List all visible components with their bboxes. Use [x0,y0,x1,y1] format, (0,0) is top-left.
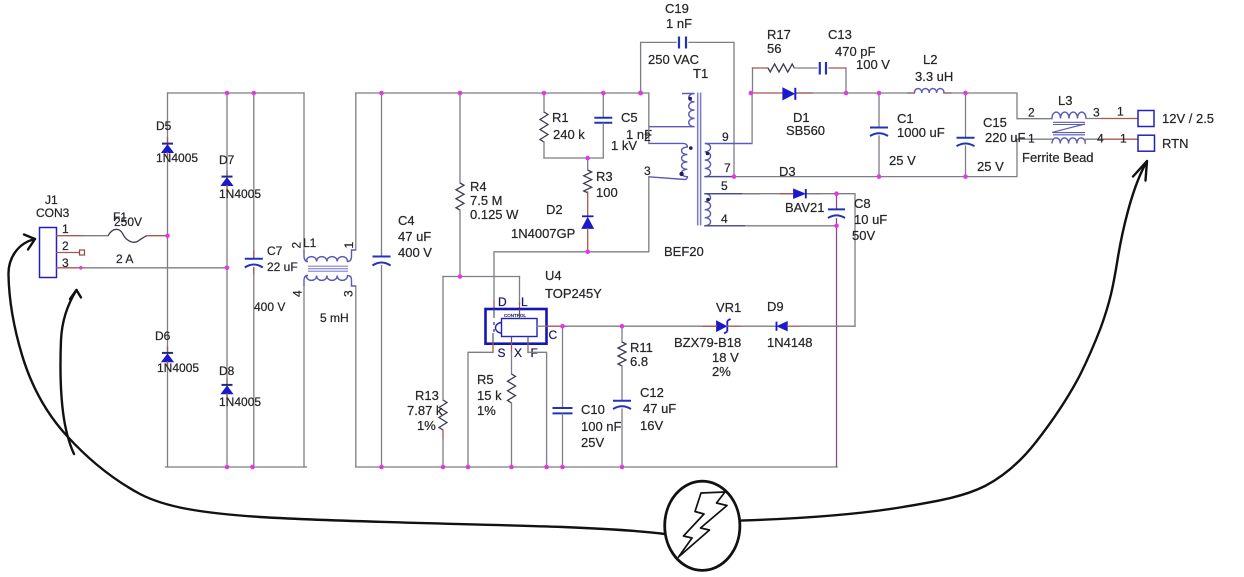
capacitor C15 220uF 25V [957,93,1026,177]
svg-text:BZX79-B18: BZX79-B18 [674,335,741,350]
svg-text:3.3 uH: 3.3 uH [915,69,953,84]
wire: secondary return rail pin 7 [705,139,1052,176]
svg-text:1N4005: 1N4005 [219,395,261,409]
svg-text:1 nF: 1 nF [666,16,692,31]
svg-text:2: 2 [644,130,651,144]
svg-text:250V: 250V [114,215,142,229]
svg-text:RTN: RTN [1162,136,1188,151]
svg-text:250 VAC: 250 VAC [648,52,699,67]
svg-text:CON3: CON3 [36,206,70,220]
hand-drawn arrow to input neutral wire [61,290,81,454]
svg-text:S: S [498,346,506,360]
inductor L1 common-mode choke 5mH [290,93,357,467]
diode D9 1N4148 [767,299,813,350]
svg-text:3: 3 [62,256,69,270]
resistor R17 56 [768,64,794,72]
svg-text:47 uF: 47 uF [398,229,431,244]
wire: bias winding pin 5 row [705,193,792,195]
svg-text:C13: C13 [828,27,852,42]
svg-text:D2: D2 [546,202,563,217]
svg-text:C19: C19 [665,1,689,16]
J1 pin 3 stub [57,256,81,270]
svg-text:5: 5 [721,179,728,193]
svg-text:7.5 M: 7.5 M [470,193,503,208]
svg-text:D7: D7 [219,153,235,167]
svg-text:1: 1 [1117,105,1124,119]
svg-text:VR1: VR1 [716,300,741,315]
svg-text:1000 uF: 1000 uF [897,125,945,140]
svg-text:1N4005: 1N4005 [156,151,198,165]
resistor R13 7.87k 1% [407,277,447,468]
svg-text:L: L [521,295,528,309]
capacitor C4 47uF 400V [373,93,433,467]
capacitor C5 1nF 1kV [594,93,652,158]
svg-text:Ferrite Bead: Ferrite Bead [1022,150,1094,165]
svg-text:7.87 k: 7.87 k [407,403,443,418]
connector J1 [40,228,57,278]
svg-text:R17: R17 [767,27,791,42]
J1 pin 2 stub with no-connect square [57,239,85,255]
wire: R1 C5 loop bottom [544,157,603,159]
svg-text:18 V: 18 V [712,350,739,365]
svg-text:C8: C8 [854,196,871,211]
svg-text:100: 100 [596,185,618,200]
svg-text:TOP245Y: TOP245Y [545,286,602,301]
T1 bias winding pins 5-4 [705,194,760,226]
wire: bridge left leg [167,93,169,467]
svg-text:56: 56 [767,41,781,56]
wire: bias winding pin 4 return [705,225,837,227]
capacitor C1 1000uF 25V [870,93,945,177]
hand-drawn curve from lightning to RTN arrow [740,161,1147,521]
T1 secondary winding pins 9-7 [705,144,752,177]
svg-text:D8: D8 [219,364,235,378]
svg-text:47 uF: 47 uF [643,401,676,416]
svg-text:C12: C12 [640,385,664,400]
svg-text:C4: C4 [398,213,415,228]
svg-text:BAV21: BAV21 [785,200,825,215]
svg-text:4: 4 [721,212,728,226]
resistor R3 100 [584,158,618,216]
svg-text:R3: R3 [596,169,613,184]
svg-text:1N4007GP: 1N4007GP [511,226,575,241]
svg-text:R1: R1 [552,110,569,125]
svg-text:7: 7 [724,161,731,175]
lightning bolt [679,492,728,557]
snubber branch R17 C13 [753,27,891,93]
capacitor C13 470pF 100V [819,62,821,75]
J1 pin 1 stub [57,222,85,236]
svg-text:2: 2 [290,242,304,249]
label J1 CON3 [36,193,70,220]
capacitor C8 10uF 50V [828,194,887,467]
svg-text:2: 2 [62,239,69,253]
svg-text:5 mH: 5 mH [320,311,349,325]
wire: drain wire from T1 pin 3 to U4 D pin [494,177,649,302]
capacitor C19 1nF 250VAC snubber loop [641,1,734,177]
svg-text:1N4148: 1N4148 [767,335,813,350]
svg-text:400 V: 400 V [398,245,432,260]
capacitor C7 22uF 400V [245,244,298,314]
T1 pin2 vertical from top rail [648,93,650,143]
svg-text:R13: R13 [415,388,439,403]
diode D5 1N4005 [156,119,198,165]
svg-text:T1: T1 [693,66,708,81]
wire: VR1 to D9 [741,325,776,327]
svg-text:1: 1 [1120,132,1127,146]
wire: middle block top rail [356,92,649,94]
svg-text:10 uF: 10 uF [854,212,887,227]
svg-text:L2: L2 [923,52,937,67]
svg-text:R4: R4 [470,179,487,194]
svg-text:BEF20: BEF20 [664,244,704,259]
svg-text:SB560: SB560 [786,123,825,138]
svg-text:9: 9 [722,130,729,144]
wire: middle block bottom rail [356,466,837,468]
wire: pin 9 riser to output rectifier [751,93,753,144]
svg-text:C10: C10 [581,402,605,417]
svg-text:R5: R5 [477,372,494,387]
resistor R1 240k [540,93,585,158]
wire: bridge second leg [226,93,228,467]
wire: output rail after D1 [752,92,783,94]
inductor L3 ferrite bead dual winding [1022,93,1138,165]
wire: C7 branch lower [253,268,255,467]
svg-text:U4: U4 [545,268,562,283]
svg-text:CONTROL: CONTROL [504,313,526,318]
svg-text:22 uF: 22 uF [267,260,298,274]
wire: left block bottom rail [166,466,307,468]
connector output 12V terminal [1138,111,1214,127]
svg-text:1: 1 [1028,132,1035,146]
wire: R4 bottom to L pin and R13 branch [443,276,520,278]
svg-text:1N4005: 1N4005 [219,187,261,201]
svg-text:15 k: 15 k [477,388,502,403]
resistor R4 7.5M 0.125W [456,93,519,277]
svg-text:16V: 16V [640,418,663,433]
svg-text:240 k: 240 k [553,127,585,142]
svg-text:25 V: 25 V [977,159,1004,174]
resistor R5 15k 1% [477,344,516,467]
wire: fuse to bridge node A [147,235,168,237]
wire: L pin drop [519,277,521,304]
svg-text:C7: C7 [267,244,283,258]
svg-text:C15: C15 [983,115,1007,130]
svg-text:2: 2 [1028,106,1035,120]
T1 primary winding pins 1-2 [649,94,695,127]
svg-text:1 kV: 1 kV [611,138,637,153]
svg-text:1N4005: 1N4005 [157,361,199,375]
lightning symbol circle [665,481,740,570]
wire: U4 F pin jog [527,344,529,353]
svg-text:L3: L3 [1058,93,1072,108]
svg-text:3: 3 [1093,106,1100,120]
transformer T1 BEF20 [644,66,760,259]
T1 core [698,93,701,226]
hand-drawn arrow to J1 [8,235,665,535]
svg-text:1: 1 [62,222,69,236]
svg-text:F: F [531,346,538,360]
svg-text:12V / 2.5: 12V / 2.5 [1162,111,1214,126]
svg-text:50V: 50V [852,228,875,243]
svg-text:D6: D6 [155,329,171,343]
svg-text:100 nF: 100 nF [581,419,622,434]
fuse F1 [108,210,147,242]
diode D2 1N4007GP [511,202,594,252]
svg-text:400 V: 400 V [254,300,285,314]
svg-text:C5: C5 [621,110,638,125]
svg-text:220 uF: 220 uF [985,130,1026,145]
inductor L2 3.3uH [914,52,953,93]
svg-text:1: 1 [342,242,356,249]
wire: line input to fuse [84,235,108,237]
svg-text:X: X [514,346,522,360]
svg-text:D5: D5 [156,119,172,133]
svg-text:C1: C1 [897,111,914,126]
IC U4 TOP245Y [486,268,603,360]
svg-text:3: 3 [644,164,651,178]
svg-text:1%: 1% [417,418,436,433]
diode D1 SB560 [783,88,825,138]
svg-text:4: 4 [291,290,305,297]
diode D6 1N4005 [155,329,199,375]
svg-text:1%: 1% [477,403,496,418]
svg-text:J1: J1 [45,193,58,207]
diode D7 1N4005 [219,153,261,201]
wire: control pin row to feedback [547,325,567,327]
wire: left block top rail [168,92,305,94]
svg-text:D3: D3 [779,164,796,179]
svg-text:C: C [549,328,558,342]
wire: U4 S pin to ground rail [492,344,494,353]
connector output RTN terminal [1138,135,1188,151]
capacitor C12 47uF 16V [613,385,676,467]
diode D8 1N4005 [219,364,261,409]
T1 winding pins 2-3 lower left [649,143,688,179]
wire: D9 to feedback riser [800,325,855,327]
diode D3 BAV21 [779,164,825,215]
wire: C7 branch upper [253,93,255,258]
zener diode VR1 BZX79-B18 [674,300,741,379]
svg-text:D9: D9 [767,299,784,314]
svg-text:2 A: 2 A [116,252,133,266]
svg-text:2%: 2% [712,364,731,379]
svg-text:L1: L1 [303,236,317,250]
svg-text:4: 4 [1097,132,1104,146]
capacitor C10 100nF 25V [553,326,622,467]
resistor R11 6.8 [618,326,653,400]
svg-text:100 V: 100 V [856,57,890,72]
svg-text:25 V: 25 V [889,153,916,168]
svg-text:0.125 W: 0.125 W [470,207,519,222]
wire: neutral line to bridge node B [81,267,227,269]
svg-text:6.8: 6.8 [630,354,648,369]
svg-text:25V: 25V [581,435,604,450]
svg-text:R11: R11 [630,340,653,355]
svg-text:3: 3 [342,290,356,297]
svg-text:D: D [498,295,507,309]
